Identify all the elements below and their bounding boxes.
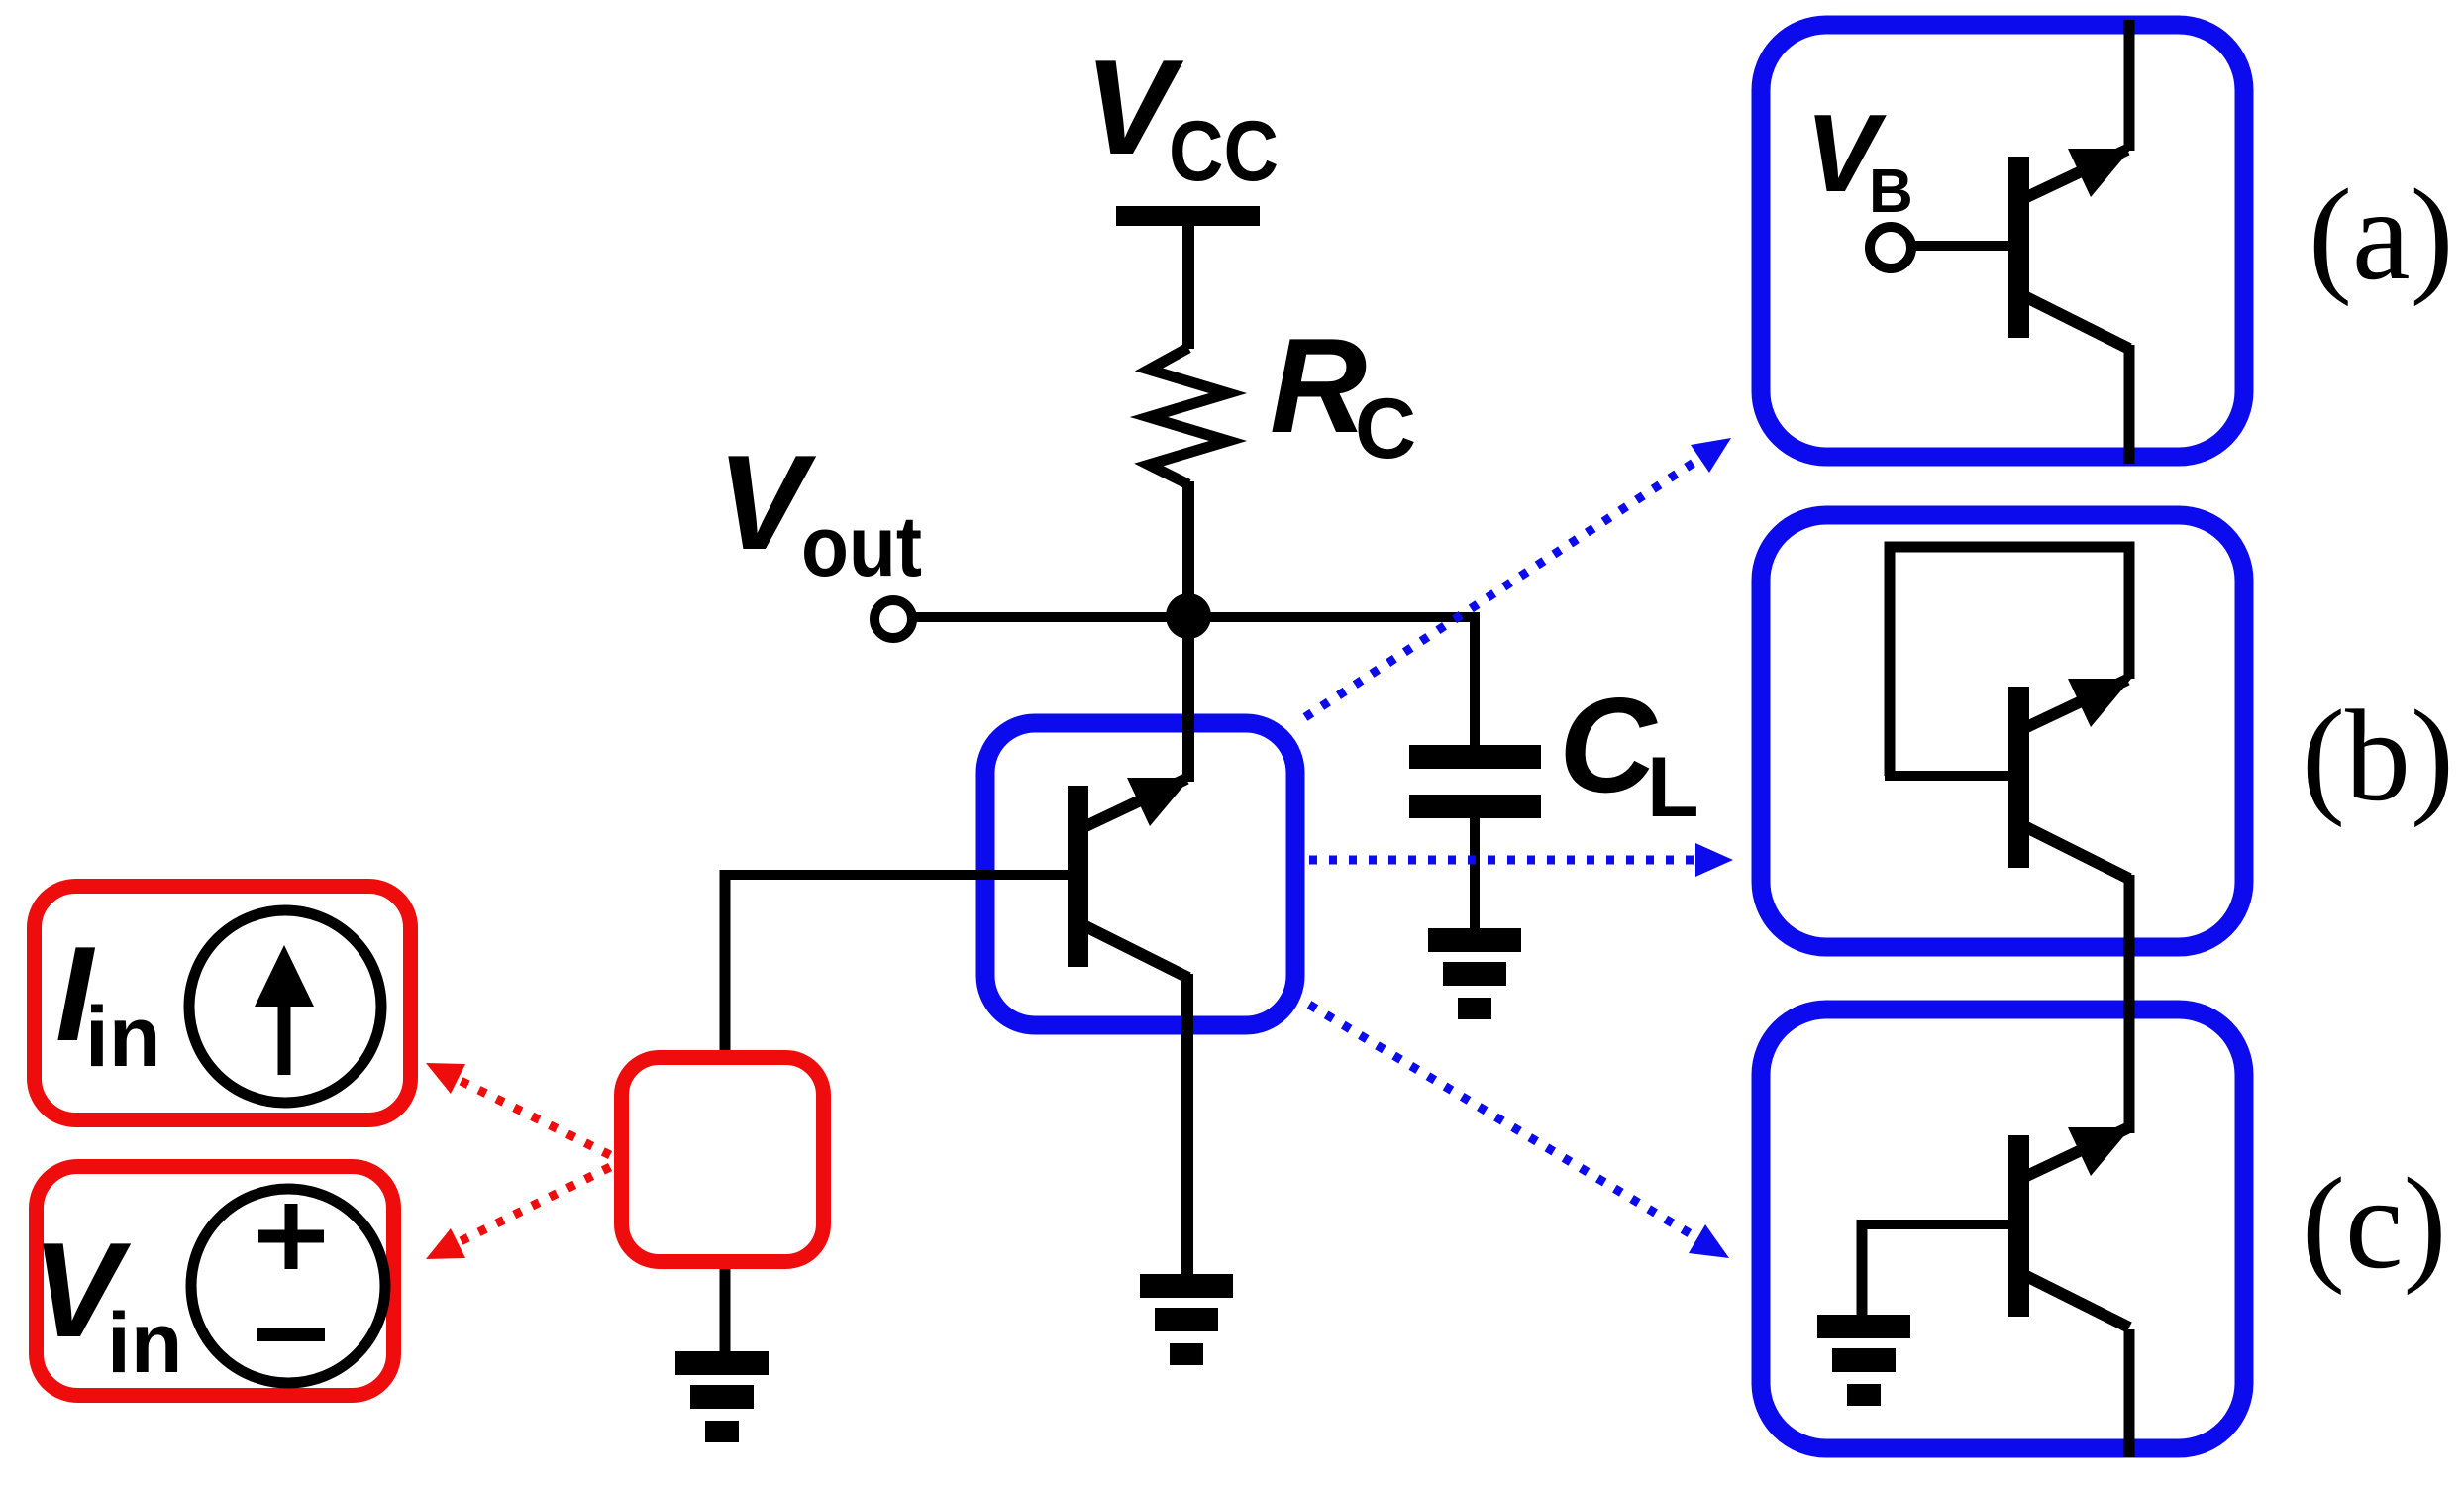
svg-text:(c): (c) [2302,1150,2447,1296]
terminal VB [1870,227,1911,268]
svg-text:out: out [801,499,922,594]
svg-text:B: B [1869,158,1913,226]
ground in (c) [1817,1315,1910,1406]
wire collector (b) down into (c) emitter [2124,875,2135,1133]
wire red box to ground [720,1269,731,1356]
svg-text:CC: CC [1169,104,1279,199]
wire collector down (c) [2124,1329,2135,1457]
wire Vout node horizontal [915,612,1480,622]
feedback loop (b) [1890,547,2129,776]
resistor RC [1149,348,1228,484]
svg-text:L: L [1647,740,1699,835]
capacitor CL [1409,745,1541,769]
base wire (b) [1885,771,2008,781]
red placeholder box (input source) [622,1058,824,1262]
wire base corner down to red box [720,870,731,1052]
svg-text:R: R [1270,310,1367,461]
svg-text:C: C [1559,670,1658,820]
red box Iin [35,887,411,1120]
svg-text:(b): (b) [2302,683,2454,828]
blue dotted arrow to (c) [1309,1005,1717,1250]
red box Vin [37,1167,394,1396]
ground below red box [675,1351,769,1442]
wire node to CL [1470,612,1480,745]
transistor Q1 (main) [1068,778,1190,978]
blue box (c) [1761,1009,2244,1448]
svg-text:C: C [1355,381,1416,477]
base wire to Q1 [720,870,1068,880]
wire collector down (a) [2124,345,2135,464]
wire VB to base [1914,241,2008,251]
voltage source Vin [191,1189,385,1383]
terminal Vout [874,600,912,638]
transistor (b) [2008,679,2131,879]
wire node to transistor emitter [1182,616,1194,782]
wire Q1 collector to ground [1181,974,1193,1279]
red dotted arrow to Iin [445,1073,610,1155]
wire CL to ground [1470,818,1480,931]
transistor (a) [2008,149,2131,349]
blue box (b) [1761,515,2244,947]
svg-text:(a): (a) [2309,161,2454,307]
blue highlight box around main transistor [985,723,1295,1025]
blue box (a) [1761,25,2244,457]
transistor (c) [2008,1127,2131,1328]
svg-text:in: in [107,1296,182,1391]
wire base corner down to ground (c) [1857,1220,1868,1318]
wire VCC to RC [1182,226,1194,349]
wire emitter up (a) [2124,20,2135,151]
svg-text:in: in [85,990,160,1085]
VCC supply bar [1116,206,1260,226]
wire RC to node [1182,481,1194,616]
blue dotted arrow to (b) [1309,856,1721,865]
node junction dot [1166,593,1211,639]
ground below Q1 [1140,1274,1233,1365]
blue dotted arrow to (a) [1305,446,1719,717]
red dotted arrow to Vin [445,1167,610,1249]
current source Iin [189,910,381,1103]
ground below CL [1428,928,1521,1019]
base wire (c) [1862,1220,2008,1229]
